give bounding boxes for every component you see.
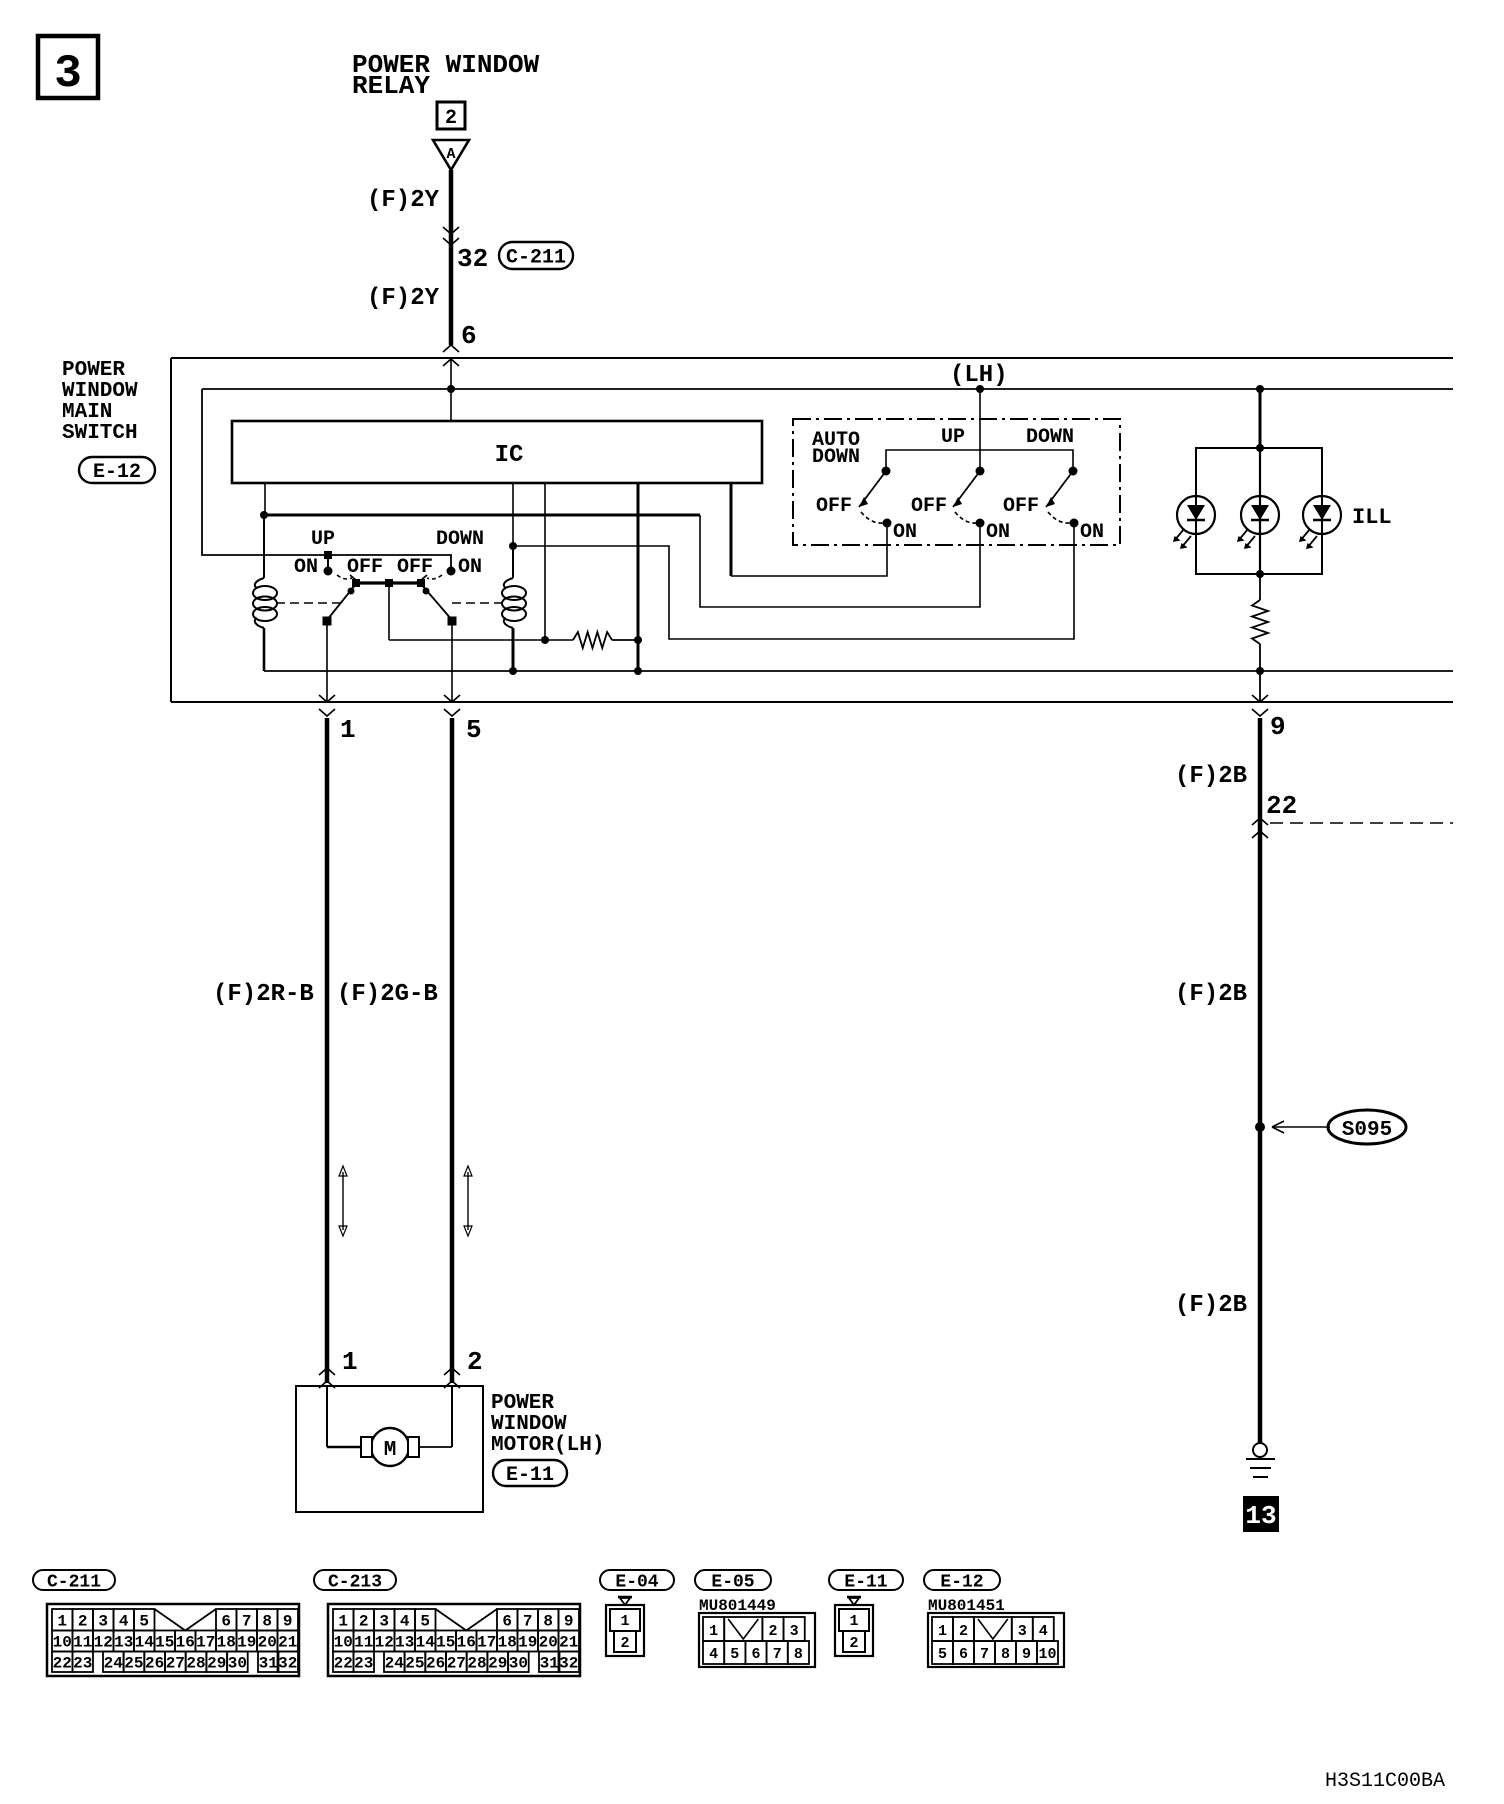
svg-text:WINDOW: WINDOW [62, 380, 138, 403]
svg-text:30: 30 [228, 1654, 247, 1672]
svg-text:27: 27 [166, 1654, 185, 1672]
svg-text:(F)2B: (F)2B [1175, 1292, 1247, 1319]
svg-text:ON: ON [294, 556, 318, 579]
svg-text:E-12: E-12 [93, 461, 141, 484]
svg-text:4: 4 [1039, 1623, 1048, 1640]
svg-text:3: 3 [1018, 1623, 1027, 1640]
svg-text:6: 6 [959, 1646, 968, 1663]
svg-text:12: 12 [94, 1634, 113, 1652]
svg-text:15: 15 [155, 1634, 174, 1652]
svg-text:17: 17 [477, 1634, 496, 1652]
svg-text:21: 21 [559, 1634, 578, 1652]
svg-text:C-211: C-211 [506, 247, 566, 270]
svg-text:1: 1 [338, 1613, 348, 1631]
svg-text:ON: ON [1080, 521, 1104, 544]
svg-text:1: 1 [340, 715, 356, 745]
svg-text:7: 7 [980, 1646, 989, 1663]
svg-text:22: 22 [334, 1654, 353, 1672]
svg-text:(F)2R-B: (F)2R-B [213, 981, 314, 1008]
svg-text:9: 9 [283, 1613, 293, 1631]
svg-text:4: 4 [400, 1613, 410, 1631]
svg-text:5: 5 [420, 1613, 430, 1631]
svg-text:2: 2 [467, 1347, 483, 1377]
svg-text:14: 14 [135, 1634, 155, 1652]
svg-text:WINDOW: WINDOW [491, 1413, 567, 1436]
svg-text:16: 16 [176, 1634, 195, 1652]
svg-text:A: A [446, 146, 455, 163]
svg-text:10: 10 [1038, 1646, 1056, 1663]
svg-text:28: 28 [186, 1654, 205, 1672]
svg-text:(F)2B: (F)2B [1175, 763, 1247, 790]
svg-text:32: 32 [559, 1654, 578, 1672]
svg-text:1: 1 [709, 1623, 718, 1640]
svg-text:E-11: E-11 [506, 1464, 554, 1487]
svg-text:8: 8 [794, 1646, 803, 1663]
svg-text:SWITCH: SWITCH [62, 422, 138, 445]
svg-text:2: 2 [620, 1635, 629, 1652]
svg-text:10: 10 [334, 1634, 353, 1652]
svg-text:6: 6 [461, 321, 477, 351]
svg-text:(F)2B: (F)2B [1175, 981, 1247, 1008]
svg-text:H3S11C00BA: H3S11C00BA [1325, 1770, 1445, 1793]
svg-text:POWER: POWER [491, 1392, 554, 1415]
svg-text:30: 30 [509, 1654, 528, 1672]
svg-text:2: 2 [78, 1613, 88, 1631]
svg-text:DOWN: DOWN [1026, 426, 1074, 449]
svg-text:E-12: E-12 [940, 1572, 983, 1592]
svg-text:E-11: E-11 [844, 1572, 887, 1592]
svg-text:1: 1 [620, 1613, 629, 1630]
svg-text:18: 18 [217, 1634, 236, 1652]
svg-text:MOTOR(LH): MOTOR(LH) [491, 1434, 604, 1457]
svg-text:5: 5 [730, 1646, 739, 1663]
svg-text:DOWN: DOWN [812, 446, 860, 469]
svg-text:4: 4 [709, 1646, 718, 1663]
svg-text:22: 22 [1266, 791, 1297, 821]
svg-text:15: 15 [436, 1634, 455, 1652]
svg-text:8: 8 [543, 1613, 553, 1631]
svg-text:1: 1 [938, 1623, 947, 1640]
svg-text:8: 8 [1001, 1646, 1010, 1663]
svg-text:5: 5 [466, 715, 482, 745]
svg-text:10: 10 [53, 1634, 72, 1652]
svg-text:9: 9 [1022, 1646, 1031, 1663]
svg-text:23: 23 [73, 1654, 92, 1672]
svg-text:DOWN: DOWN [436, 528, 484, 551]
svg-text:1: 1 [57, 1613, 67, 1631]
svg-text:ON: ON [458, 556, 482, 579]
svg-text:4: 4 [119, 1613, 129, 1631]
svg-text:OFF: OFF [1003, 495, 1039, 518]
svg-text:31: 31 [540, 1654, 559, 1672]
svg-text:20: 20 [258, 1634, 277, 1652]
svg-text:29: 29 [207, 1654, 226, 1672]
svg-text:C-213: C-213 [328, 1572, 382, 1592]
svg-text:9: 9 [1270, 712, 1286, 742]
svg-text:S095: S095 [1342, 1119, 1392, 1142]
svg-text:OFF: OFF [911, 495, 947, 518]
svg-text:13: 13 [114, 1634, 133, 1652]
svg-text:2: 2 [959, 1623, 968, 1640]
svg-text:11: 11 [73, 1634, 92, 1652]
svg-text:6: 6 [221, 1613, 231, 1631]
svg-text:21: 21 [278, 1634, 297, 1652]
svg-text:OFF: OFF [816, 495, 852, 518]
svg-text:OFF: OFF [347, 556, 383, 579]
svg-text:2: 2 [359, 1613, 369, 1631]
svg-text:26: 26 [426, 1654, 445, 1672]
svg-text:5: 5 [139, 1613, 149, 1631]
svg-text:11: 11 [354, 1634, 373, 1652]
svg-text:IC: IC [495, 442, 524, 469]
svg-text:5: 5 [938, 1646, 947, 1663]
svg-text:20: 20 [539, 1634, 558, 1652]
svg-text:25: 25 [124, 1654, 143, 1672]
svg-text:7: 7 [773, 1646, 782, 1663]
svg-text:24: 24 [104, 1654, 124, 1672]
svg-text:26: 26 [145, 1654, 164, 1672]
svg-text:31: 31 [259, 1654, 278, 1672]
svg-text:OFF: OFF [397, 556, 433, 579]
svg-text:19: 19 [237, 1634, 256, 1652]
svg-text:25: 25 [405, 1654, 424, 1672]
svg-text:13: 13 [395, 1634, 414, 1652]
svg-text:6: 6 [502, 1613, 512, 1631]
svg-text:E-05: E-05 [711, 1572, 754, 1592]
svg-text:24: 24 [385, 1654, 405, 1672]
svg-text:13: 13 [1245, 1501, 1276, 1531]
svg-text:2: 2 [445, 107, 457, 130]
svg-text:32: 32 [457, 244, 488, 274]
svg-text:1: 1 [342, 1347, 358, 1377]
svg-text:28: 28 [467, 1654, 486, 1672]
svg-text:16: 16 [457, 1634, 476, 1652]
svg-text:UP: UP [311, 528, 335, 551]
svg-text:14: 14 [416, 1634, 436, 1652]
svg-text:ON: ON [986, 521, 1010, 544]
svg-text:(F)2G-B: (F)2G-B [337, 981, 438, 1008]
svg-text:C-211: C-211 [47, 1572, 101, 1592]
svg-text:POWER: POWER [62, 359, 125, 382]
svg-text:29: 29 [488, 1654, 507, 1672]
svg-text:19: 19 [518, 1634, 537, 1652]
svg-text:ILL: ILL [1352, 505, 1392, 530]
svg-text:E-04: E-04 [615, 1572, 658, 1592]
svg-text:18: 18 [498, 1634, 517, 1652]
svg-text:RELAY: RELAY [352, 71, 430, 101]
svg-text:7: 7 [242, 1613, 252, 1631]
svg-text:12: 12 [375, 1634, 394, 1652]
svg-text:6: 6 [751, 1646, 760, 1663]
svg-text:9: 9 [564, 1613, 574, 1631]
svg-text:M: M [384, 1439, 397, 1462]
svg-text:2: 2 [768, 1623, 777, 1640]
svg-text:17: 17 [196, 1634, 215, 1652]
svg-text:7: 7 [523, 1613, 533, 1631]
svg-text:3: 3 [379, 1613, 389, 1631]
svg-text:27: 27 [447, 1654, 466, 1672]
svg-text:2: 2 [849, 1635, 858, 1652]
svg-text:(LH): (LH) [950, 362, 1008, 389]
svg-text:8: 8 [262, 1613, 272, 1631]
svg-text:3: 3 [790, 1623, 799, 1640]
svg-text:22: 22 [53, 1654, 72, 1672]
svg-text:(F)2Y: (F)2Y [367, 187, 440, 214]
svg-text:(F)2Y: (F)2Y [367, 285, 440, 312]
svg-text:3: 3 [98, 1613, 108, 1631]
svg-text:MAIN: MAIN [62, 401, 112, 424]
svg-text:ON: ON [893, 521, 917, 544]
svg-text:UP: UP [941, 426, 965, 449]
svg-text:1: 1 [849, 1613, 858, 1630]
svg-text:3: 3 [54, 48, 82, 100]
svg-text:23: 23 [354, 1654, 373, 1672]
svg-text:32: 32 [278, 1654, 297, 1672]
